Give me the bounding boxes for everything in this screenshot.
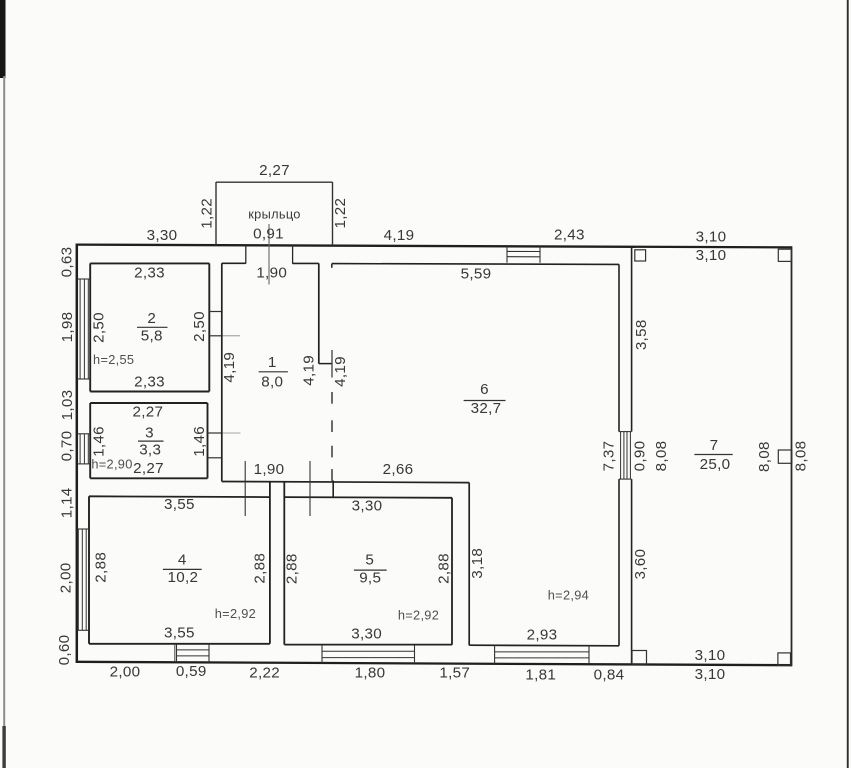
porch wall right [332,182,334,246]
room 6 left boundary dashed segment 1 [331,392,333,404]
svg-text:8,08: 8,08 [653,441,670,472]
window wall 6-7 line 2 [623,432,625,480]
svg-text:2,33: 2,33 [134,264,165,281]
room 2 door tick lower faint extension [222,335,240,337]
svg-text:крыльцо: крыльцо [248,206,300,221]
svg-text:3,3: 3,3 [139,441,161,458]
tick left of room 4 bottom window [174,644,176,662]
porch wall left [215,182,217,246]
svg-text:2,27: 2,27 [259,162,290,179]
svg-text:2: 2 [147,310,156,327]
svg-text:1,03: 1,03 [59,390,76,421]
room 2 wall bottom [90,391,209,393]
room 7 fraction line [694,454,732,456]
corridor bottom wall [222,482,469,483]
room 3 wall right [207,403,209,478]
wall 6-7 left line upper [618,264,620,431]
entrance door jamb left [245,245,247,264]
room 2 fraction line [137,326,168,328]
room 6 top inner wall line [332,263,619,266]
svg-text:3,10: 3,10 [695,647,726,664]
entrance door centerline [268,224,270,285]
svg-text:1,14: 1,14 [59,488,76,519]
svg-text:2,27: 2,27 [133,404,164,421]
window wall 6-7 line 1 [620,432,622,480]
svg-text:8,08: 8,08 [793,441,810,472]
room 2 door tick lower [209,335,222,337]
room 3 door tick upper [208,432,222,434]
window top wall cap left [506,246,508,262]
scan edge dark line right [847,0,849,768]
wall 6-7 right line lower [631,479,633,665]
window wall 6-7 line 4 [629,432,631,480]
room 2 door tick upper [209,311,222,313]
corridor left wall [221,263,223,481]
window wall 6-7 cap top [619,431,632,433]
room 4 wall right (wall between rooms 4 and 5 left line) [269,482,271,644]
svg-text:4,19: 4,19 [332,356,349,387]
svg-text:0,91: 0,91 [253,225,284,242]
room 5 wall right [451,498,453,645]
room 6 left stub at top [331,264,333,268]
svg-text:1,22: 1,22 [332,198,349,229]
svg-text:8,0: 8,0 [261,373,283,390]
svg-text:4,19: 4,19 [384,227,415,244]
svg-text:3,55: 3,55 [164,496,195,513]
room 6 fraction line [464,400,506,402]
dimension tick 1,90 right [309,461,311,516]
dimension tick 4,19 at corridor step [331,350,333,378]
scan edge darker bottom-left [2,726,5,768]
svg-text:2,33: 2,33 [134,373,165,390]
room 4 fraction line [163,568,202,570]
window left wall room 4 (2,00) [78,529,90,630]
svg-text:0,84: 0,84 [594,667,625,684]
svg-text:3,10: 3,10 [696,228,727,245]
room 3 wall top [90,402,207,404]
svg-text:4,19: 4,19 [301,355,318,386]
svg-text:5: 5 [365,552,374,569]
room 6 nook bottom inner line [469,644,619,647]
svg-text:5,59: 5,59 [461,266,492,283]
svg-text:2,93: 2,93 [527,627,558,644]
room 3 door tick lower [208,457,222,459]
outer wall bottom [76,662,792,665]
svg-text:3,58: 3,58 [633,319,650,350]
svg-text:0,59: 0,59 [176,663,207,680]
room 2 wall top [90,262,209,264]
wall 6-7 right line upper [631,247,633,432]
outer wall right [791,246,793,666]
window wall 6-7 line 3 [626,432,628,480]
svg-text:25,0: 25,0 [700,456,731,473]
outer wall top [76,245,792,248]
svg-text:2,66: 2,66 [383,461,414,478]
svg-text:1,22: 1,22 [199,198,216,229]
svg-text:3,30: 3,30 [351,626,382,643]
svg-text:6: 6 [480,381,489,398]
rooms 4-5 top wall line left segment [89,495,270,498]
svg-text:1,46: 1,46 [91,426,108,457]
svg-text:8,08: 8,08 [756,441,773,472]
svg-text:2,88: 2,88 [436,553,453,584]
corridor right wall upper [318,263,320,363]
room 3 wall left [89,403,91,478]
svg-text:1,80: 1,80 [355,664,386,681]
svg-text:h=2,92: h=2,92 [215,606,256,621]
room 5 fraction line [354,569,387,571]
outer wall left [76,244,79,664]
wall stub at corridor bottom junction with dashed boundary [332,481,334,498]
window bottom wall room 6 (1,81) [495,645,589,663]
room 1 fraction line [259,371,288,373]
svg-text:0,70: 0,70 [59,431,76,462]
svg-text:3,55: 3,55 [164,624,195,641]
svg-text:1,81: 1,81 [525,667,556,684]
scan edge artifact black sliver top-left [0,0,6,78]
svg-text:3: 3 [145,424,154,441]
window bottom wall room 5 (1,80) [322,645,415,663]
svg-text:2,88: 2,88 [93,552,110,583]
top wall inner line right of door [293,262,319,264]
room 5 wall left (wall between rooms 4 and 5 right line) [283,482,285,645]
svg-text:7: 7 [710,437,719,454]
svg-text:5,8: 5,8 [141,327,163,344]
svg-text:1,57: 1,57 [439,665,470,682]
rooms 4-5 top wall line right segment [284,496,452,499]
svg-text:4,19: 4,19 [221,352,238,383]
svg-text:3,30: 3,30 [352,497,383,514]
room 7 pillar square bottom-left [632,651,647,665]
room 6 left boundary dashed segment 4 [331,469,333,481]
svg-text:1,90: 1,90 [256,264,287,281]
svg-text:2,50: 2,50 [91,312,108,343]
room 4 wall left [88,496,90,644]
porch wall top [216,181,333,183]
window wall 6-7 cap bottom [619,478,632,480]
svg-text:3,60: 3,60 [632,549,649,580]
room 2 wall left [89,263,91,391]
svg-text:3,10: 3,10 [695,666,726,683]
room 3 wall bottom [90,477,207,479]
room 3 door tick upper faint extension [222,432,241,434]
room 3 fraction line [138,440,164,442]
svg-text:0,90: 0,90 [631,441,648,472]
room 6 nook left wall [468,483,470,646]
svg-text:2,50: 2,50 [191,311,208,342]
svg-text:0,63: 0,63 [59,247,76,278]
dimension tick 1,90 left [244,461,246,516]
svg-text:3,10: 3,10 [696,247,727,264]
svg-text:32,7: 32,7 [471,400,502,417]
svg-text:4: 4 [178,552,187,569]
svg-text:3,30: 3,30 [147,227,178,244]
window top wall mullion line 1 [507,250,540,252]
svg-text:h=2,92: h=2,92 [398,608,439,623]
svg-text:h=2,94: h=2,94 [548,588,589,603]
window left wall room 3 (0,70) [78,434,91,464]
room 7 pillar square top-left [635,250,646,261]
wall 6-7 left line lower [618,479,620,646]
top wall inner line left of door [222,262,246,264]
entrance door jamb right [292,245,294,264]
room 6 left boundary dashed segment 2 [331,420,333,432]
svg-text:2,22: 2,22 [249,664,280,681]
svg-text:2,27: 2,27 [133,460,164,477]
svg-text:h=2,90: h=2,90 [91,457,132,472]
room 2 wall right [208,263,210,391]
svg-text:1,46: 1,46 [191,426,208,457]
window left wall room 2 (1,98) [78,279,91,379]
svg-text:9,5: 9,5 [359,570,381,587]
svg-text:2,00: 2,00 [110,664,141,681]
window top wall mullion line 2 [507,256,540,258]
svg-text:1: 1 [268,354,277,371]
svg-text:7,37: 7,37 [600,441,617,472]
svg-text:2,88: 2,88 [284,553,301,584]
svg-text:2,88: 2,88 [252,553,269,584]
window bottom wall room 4 (0,59) [177,644,210,662]
room 6 left boundary dashed segment 3 [331,446,333,458]
window top wall cap right [539,246,541,262]
room 7 pillar square bottom-right [778,653,791,665]
room 7 pillar square mid-right [778,450,792,463]
room 5 wall bottom [284,644,452,646]
svg-text:1,98: 1,98 [59,312,76,343]
svg-text:3,18: 3,18 [469,548,486,579]
room 4 wall bottom [89,643,270,645]
svg-text:0,60: 0,60 [56,635,73,666]
scan edge grey line left [3,76,5,732]
room 7 pillar square top-right [778,249,791,261]
svg-text:1,90: 1,90 [254,461,285,478]
svg-text:h=2,55: h=2,55 [93,352,134,367]
svg-text:2,43: 2,43 [554,227,585,244]
svg-text:2,00: 2,00 [58,563,75,594]
svg-text:10,2: 10,2 [168,569,199,586]
corridor step to room 6 [319,363,332,365]
